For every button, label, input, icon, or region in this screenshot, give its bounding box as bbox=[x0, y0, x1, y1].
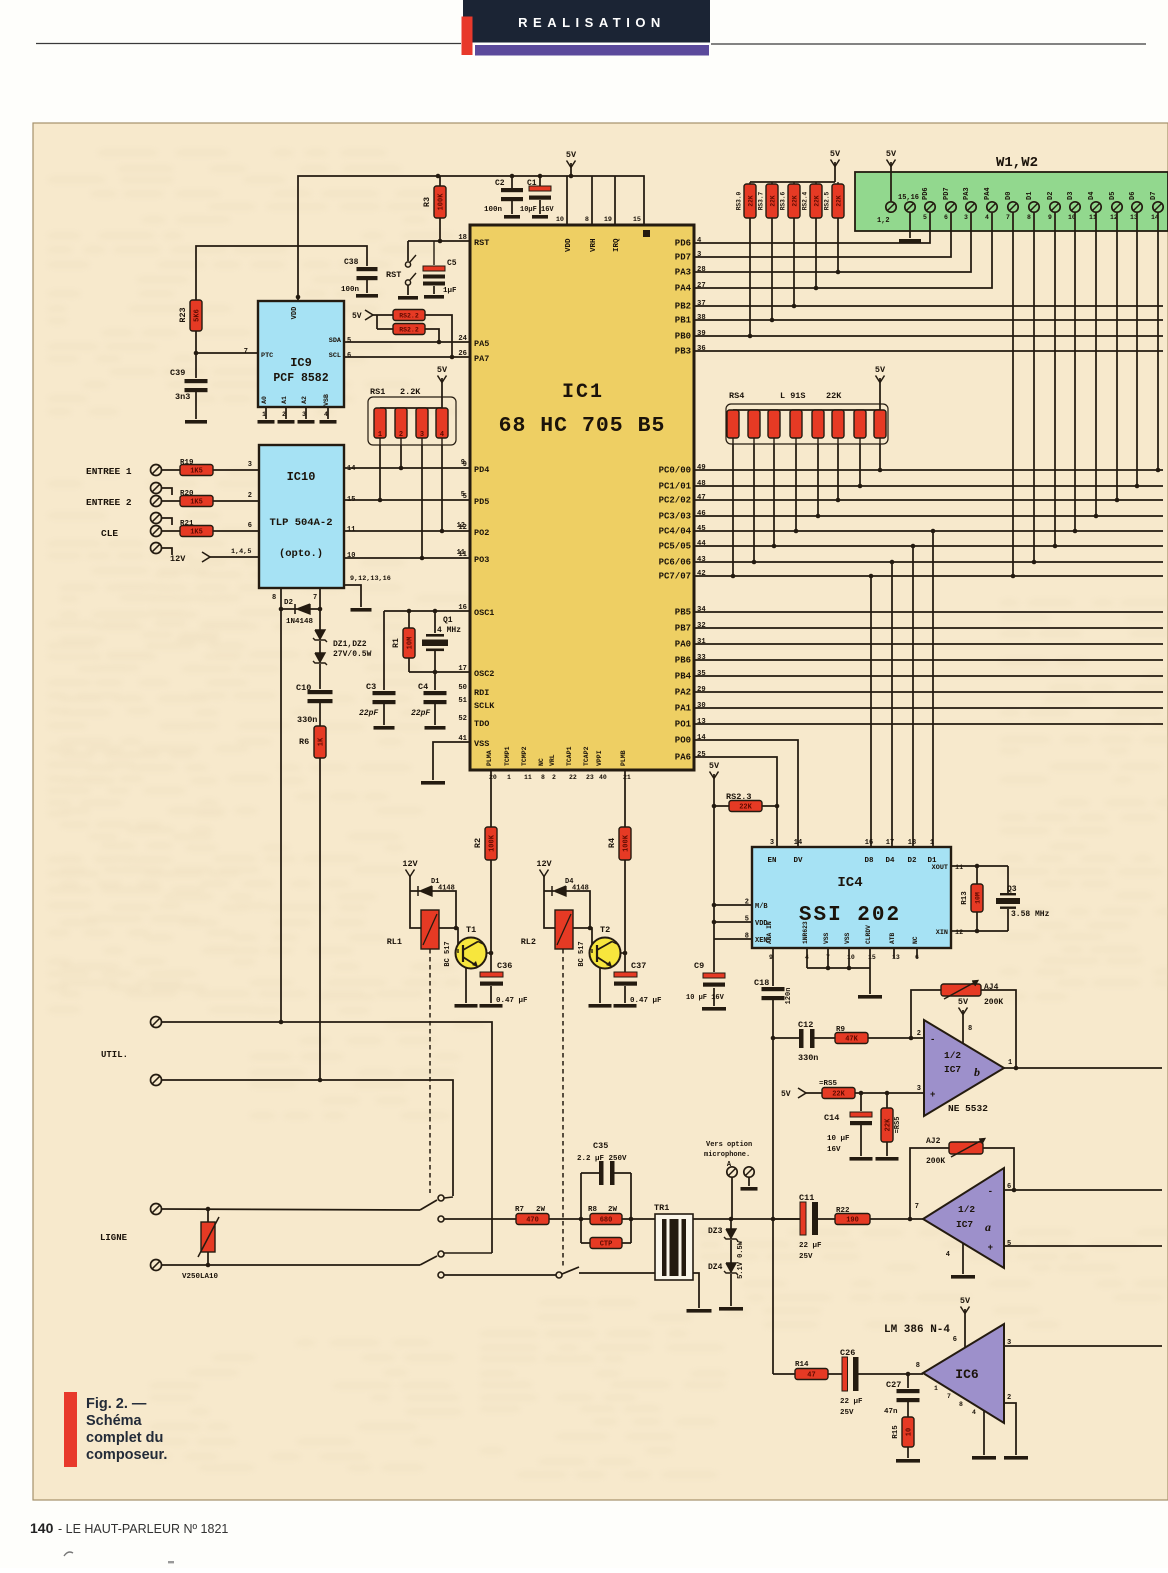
connector ENTREE 1 bbox=[86, 465, 162, 478]
svg-text:18: 18 bbox=[908, 839, 916, 847]
junction R23 C39 node bbox=[194, 351, 199, 356]
wire PB4 bus bbox=[694, 675, 1163, 677]
crystal Q3 3.58MHz bbox=[996, 866, 1050, 931]
svg-text:D2: D2 bbox=[1047, 192, 1055, 200]
svg-text:100K: 100K bbox=[489, 834, 497, 852]
svg-text:Schéma: Schéma bbox=[86, 1413, 143, 1429]
svg-text:1K5: 1K5 bbox=[190, 499, 203, 507]
diode D4 4148 bbox=[544, 878, 590, 928]
svg-text:3: 3 bbox=[420, 431, 424, 439]
svg-text:RS2.2: RS2.2 bbox=[399, 313, 419, 320]
svg-text:5V: 5V bbox=[781, 1090, 791, 1099]
svg-text:1K5: 1K5 bbox=[190, 468, 203, 476]
svg-text:330n: 330n bbox=[297, 715, 317, 725]
page footer bbox=[30, 1520, 228, 1536]
power 5V W1W2 pin1,2 bbox=[886, 149, 897, 201]
op-amp IC6 LM386 bbox=[884, 1324, 1011, 1423]
svg-text:8: 8 bbox=[916, 1362, 920, 1370]
wire LIGNE2 to contact bbox=[162, 1264, 420, 1266]
svg-text:PB2: PB2 bbox=[675, 302, 691, 312]
figure caption red bar bbox=[64, 1392, 77, 1467]
svg-text:5V: 5V bbox=[958, 997, 969, 1007]
svg-text:VDD: VDD bbox=[565, 238, 573, 252]
svg-text:-: - bbox=[930, 1035, 935, 1045]
svg-text:VSS: VSS bbox=[474, 739, 489, 749]
wire PTC pin7 of IC9 bbox=[196, 352, 258, 354]
svg-text:PB1: PB1 bbox=[675, 316, 692, 326]
svg-text:R13: R13 bbox=[961, 891, 969, 905]
junction C27 node bbox=[906, 1372, 911, 1377]
junction DZ3 node bbox=[729, 1217, 734, 1222]
capacitor C4 22pF bbox=[411, 672, 447, 730]
svg-text:1K: 1K bbox=[318, 737, 326, 746]
wire PA1 bus bbox=[694, 707, 1163, 709]
wire PO1 bus bbox=[694, 723, 1163, 725]
junction AJ2 node bbox=[908, 1217, 913, 1222]
svg-text:L 91S: L 91S bbox=[780, 391, 806, 401]
wire PC1 bus bbox=[694, 485, 1163, 487]
wire RS3.0 to PB0 bbox=[749, 218, 751, 336]
page bottom marks bbox=[64, 1552, 73, 1556]
IC1 title text bbox=[499, 381, 666, 438]
svg-text:19: 19 bbox=[604, 216, 612, 224]
svg-text:17: 17 bbox=[886, 839, 894, 847]
svg-text:120n: 120n bbox=[785, 988, 793, 1005]
wire IC4 D4 to PC6 bbox=[891, 562, 893, 847]
svg-text:A2: A2 bbox=[301, 396, 308, 404]
svg-text:R23: R23 bbox=[178, 307, 188, 322]
power 12V for RL1 bbox=[402, 859, 418, 891]
svg-text:6: 6 bbox=[944, 214, 948, 221]
svg-text:3: 3 bbox=[917, 1085, 921, 1093]
junction R6 wire on UTIL2 bbox=[318, 1078, 323, 1083]
resistor RS5 22K vertical bbox=[876, 1093, 903, 1161]
svg-text:1/2: 1/2 bbox=[944, 1050, 961, 1061]
junction D2 nodes bbox=[279, 607, 284, 612]
power 5V RS3 bbox=[830, 149, 841, 182]
svg-text:IC7: IC7 bbox=[956, 1219, 973, 1230]
relay contact K1b bbox=[420, 1251, 492, 1278]
svg-text:5V: 5V bbox=[875, 365, 886, 375]
svg-text:Fig. 2. —: Fig. 2. — bbox=[86, 1396, 147, 1412]
capacitor C11 22uF 25V bbox=[773, 1193, 835, 1261]
svg-text:C1: C1 bbox=[527, 179, 537, 188]
svg-text:V250LA10: V250LA10 bbox=[182, 1273, 219, 1281]
svg-text:C35: C35 bbox=[593, 1141, 608, 1151]
svg-text:5V: 5V bbox=[709, 761, 720, 771]
svg-text:5: 5 bbox=[923, 214, 927, 221]
wire IC4 D1 to PC4 bbox=[932, 531, 934, 847]
thermistor CTP bbox=[581, 1219, 631, 1249]
svg-text:RDI: RDI bbox=[474, 688, 489, 698]
svg-text:a: a bbox=[985, 1220, 991, 1234]
svg-text:22 µF: 22 µF bbox=[799, 1242, 822, 1250]
svg-text:PD6: PD6 bbox=[922, 187, 930, 200]
resistor R14 47 bbox=[795, 1361, 843, 1380]
svg-text:7: 7 bbox=[1006, 214, 1010, 221]
header rule left bbox=[36, 43, 461, 45]
svg-text:IC6: IC6 bbox=[955, 1367, 979, 1382]
svg-text:T2: T2 bbox=[600, 925, 610, 935]
power 5V IC7b pin8 bbox=[958, 997, 972, 1043]
wire T1 emitter to ground bbox=[455, 967, 478, 1008]
svg-text:D4: D4 bbox=[885, 857, 895, 865]
svg-text:12V: 12V bbox=[170, 554, 186, 564]
IC1 bottom pin labels bbox=[486, 746, 631, 781]
svg-text:R2: R2 bbox=[473, 838, 483, 848]
svg-text:C4: C4 bbox=[418, 682, 428, 692]
svg-text:CLRDV: CLRDV bbox=[865, 925, 872, 944]
junction IC9 VDD lead bbox=[296, 295, 301, 300]
wire D2 to PC5 bus bbox=[1054, 212, 1056, 546]
wire contact to R7 bbox=[444, 1218, 516, 1220]
svg-text:+: + bbox=[930, 1090, 935, 1100]
resistor R1 10M bbox=[392, 611, 415, 672]
svg-text:100n: 100n bbox=[484, 206, 503, 214]
svg-text:PA5: PA5 bbox=[474, 339, 489, 349]
resistor network RS1 2.2K bbox=[368, 387, 456, 445]
svg-text:D8: D8 bbox=[864, 857, 874, 865]
svg-text:XIN: XIN bbox=[936, 929, 948, 937]
connector LIGNE bottom bbox=[151, 1260, 162, 1271]
svg-text:22K: 22K bbox=[814, 195, 821, 206]
svg-text:SCL: SCL bbox=[329, 352, 341, 360]
svg-text:PO0: PO0 bbox=[675, 736, 691, 746]
svg-text:VSB: VSB bbox=[323, 394, 330, 406]
svg-text:C37: C37 bbox=[631, 961, 646, 971]
svg-text:11: 11 bbox=[524, 774, 532, 781]
wire IC4 VSS ground bus bbox=[807, 948, 882, 999]
svg-text:5V: 5V bbox=[886, 149, 897, 159]
svg-text:9: 9 bbox=[463, 461, 467, 469]
wire IC7b output bbox=[1004, 1067, 1162, 1069]
svg-text:T1: T1 bbox=[466, 925, 476, 935]
svg-text:PD7: PD7 bbox=[943, 187, 951, 200]
wire D4 to PC3 bus bbox=[1095, 212, 1097, 516]
wire W1W2 ground pin15,16 bbox=[899, 212, 921, 243]
svg-text:PA4: PA4 bbox=[984, 187, 992, 200]
relay coil RL2 bbox=[521, 891, 573, 949]
svg-text:5V: 5V bbox=[566, 150, 577, 160]
junction D1 cathode bbox=[454, 926, 459, 931]
svg-text:9: 9 bbox=[1048, 214, 1052, 221]
svg-text:VDD: VDD bbox=[291, 307, 299, 320]
junction RS5v node bbox=[885, 1091, 890, 1096]
svg-text:200K: 200K bbox=[984, 998, 1003, 1007]
svg-text:7: 7 bbox=[915, 1203, 919, 1211]
relay contact K2 bbox=[556, 1267, 655, 1278]
svg-text:DV: DV bbox=[793, 857, 803, 865]
wire RS4 leg x733 bbox=[732, 444, 734, 576]
power 5V for RS2.2 pullups bbox=[352, 310, 393, 329]
junction feedback node IC7b bbox=[909, 1036, 914, 1041]
svg-text:5K6: 5K6 bbox=[194, 309, 202, 322]
wire RS4 leg x754 bbox=[753, 444, 755, 562]
figure caption text bbox=[86, 1396, 167, 1463]
svg-text:5V: 5V bbox=[437, 365, 448, 375]
svg-text:PD6: PD6 bbox=[675, 239, 691, 249]
svg-text:NC: NC bbox=[538, 758, 545, 766]
svg-text:CLE: CLE bbox=[101, 528, 118, 539]
svg-text:PTC: PTC bbox=[261, 352, 273, 360]
svg-text:4: 4 bbox=[946, 1251, 950, 1259]
junction D4 cathode bbox=[588, 926, 593, 931]
capacitor C3 22pF bbox=[359, 611, 396, 730]
svg-text:R8: R8 bbox=[588, 1206, 598, 1214]
svg-text:R14: R14 bbox=[795, 1361, 809, 1369]
wire RS1-1 to PD5 line bbox=[379, 445, 381, 500]
wire VSS to ground bbox=[421, 742, 470, 785]
resistor R15 10 bbox=[892, 1417, 920, 1463]
svg-text:TCMP2: TCMP2 bbox=[521, 746, 528, 766]
svg-text:RS2.2: RS2.2 bbox=[399, 327, 419, 334]
svg-text:PC0/00: PC0/00 bbox=[659, 466, 691, 476]
wire PC3 bus bbox=[694, 515, 1163, 517]
svg-text:PA3: PA3 bbox=[675, 268, 691, 278]
svg-text:D3: D3 bbox=[1067, 192, 1075, 200]
svg-text:PA0: PA0 bbox=[675, 640, 691, 650]
svg-text:PD7: PD7 bbox=[675, 253, 691, 263]
relay linkage RL2 dashed bbox=[562, 949, 564, 1268]
svg-text:5V: 5V bbox=[352, 312, 362, 321]
svg-text:4 MHz: 4 MHz bbox=[437, 626, 461, 635]
svg-text:DZ4: DZ4 bbox=[708, 1263, 723, 1272]
wire PC6 bus bbox=[694, 561, 1163, 563]
svg-text:6: 6 bbox=[953, 1336, 957, 1344]
svg-text:22K: 22K bbox=[748, 195, 755, 206]
svg-text:15: 15 bbox=[633, 216, 641, 224]
junction audio node at line bbox=[771, 1217, 776, 1222]
svg-text:2W: 2W bbox=[608, 1206, 618, 1214]
svg-text:IC7: IC7 bbox=[944, 1064, 961, 1075]
svg-text:27V/0.5W: 27V/0.5W bbox=[333, 650, 372, 659]
wire IC6 pin2 ground bbox=[1004, 1403, 1028, 1460]
capacitor C37 0.47uF bbox=[614, 961, 663, 1008]
IC1 right pin labels bbox=[659, 237, 707, 763]
svg-text:=RS5: =RS5 bbox=[819, 1080, 838, 1088]
resistor R2 100K bbox=[473, 770, 497, 972]
svg-text:NE 5532: NE 5532 bbox=[948, 1103, 988, 1114]
svg-text:D7: D7 bbox=[1150, 192, 1158, 200]
svg-text:OSC2: OSC2 bbox=[474, 669, 494, 679]
svg-text:C12: C12 bbox=[798, 1020, 813, 1030]
svg-text:10µF 16V: 10µF 16V bbox=[520, 206, 554, 214]
svg-text:LIGNE: LIGNE bbox=[100, 1233, 128, 1243]
svg-text:1: 1 bbox=[930, 839, 934, 847]
wire PA6 to IC4 EN bbox=[694, 757, 777, 847]
power 5V for RS1 bbox=[437, 365, 448, 408]
connector LIGNE top bbox=[151, 1204, 162, 1215]
resistor RS2.2 pullup b bbox=[393, 324, 441, 345]
diode D2 1N4148 bbox=[281, 599, 320, 626]
svg-text:R7: R7 bbox=[515, 1206, 524, 1214]
svg-text:2: 2 bbox=[917, 1030, 921, 1038]
header rule right bbox=[711, 43, 1146, 45]
resistor R21 1K5 bbox=[162, 520, 259, 537]
svg-text:PCF 8582: PCF 8582 bbox=[273, 372, 328, 385]
svg-text:VSS: VSS bbox=[844, 932, 851, 944]
junction AJ2 on minus input bbox=[1012, 1188, 1017, 1193]
junction R3 on RST net bbox=[438, 239, 443, 244]
capacitor C27 47n bbox=[884, 1374, 920, 1417]
resistor R19 1K5 bbox=[162, 459, 259, 476]
zener DZ3 5.1V bbox=[708, 1219, 738, 1241]
svg-text:R4: R4 bbox=[607, 838, 617, 848]
wire D3 to PC4 bus bbox=[1074, 212, 1076, 531]
svg-text:Q3: Q3 bbox=[1007, 885, 1017, 894]
svg-text:22 µF: 22 µF bbox=[840, 1398, 863, 1406]
svg-text:140: 140 bbox=[30, 1520, 54, 1536]
zener DZ1 bbox=[313, 609, 327, 642]
svg-text:RS2.3: RS2.3 bbox=[726, 792, 752, 802]
svg-text:C36: C36 bbox=[497, 961, 512, 971]
wire UTIL1 net bbox=[162, 1022, 492, 1253]
svg-text:C5: C5 bbox=[447, 259, 457, 268]
svg-text:68 HC 705 B5: 68 HC 705 B5 bbox=[499, 414, 666, 438]
svg-text:1K5: 1K5 bbox=[190, 529, 203, 537]
svg-text:R19: R19 bbox=[180, 459, 194, 467]
svg-text:RS1: RS1 bbox=[370, 387, 385, 397]
capacitor C36 0.47uF bbox=[480, 961, 529, 1008]
potentiometer AJ2 200K bbox=[910, 1137, 1014, 1219]
svg-text:6: 6 bbox=[248, 522, 252, 530]
svg-text:IC4: IC4 bbox=[837, 875, 862, 891]
svg-text:0.47 µF: 0.47 µF bbox=[630, 997, 662, 1005]
svg-text:3: 3 bbox=[964, 214, 968, 221]
svg-text:10 µF 16V: 10 µF 16V bbox=[686, 994, 725, 1002]
IC10 TLP504A-2 body bbox=[259, 445, 344, 588]
resistor R3 100K bbox=[422, 176, 446, 241]
connector W1W2 pin circles bbox=[877, 187, 1163, 225]
capacitor C38 100n bbox=[341, 258, 378, 298]
svg-text:ENTREE 2: ENTREE 2 bbox=[86, 497, 132, 508]
svg-text:9,12,13,16: 9,12,13,16 bbox=[350, 575, 391, 583]
connector UTIL bottom bbox=[151, 1075, 162, 1086]
svg-text:7: 7 bbox=[244, 348, 248, 356]
capacitor C12 330n bbox=[773, 1020, 835, 1063]
wire IC4 D2 to PC5 bbox=[912, 546, 914, 847]
svg-text:PB4: PB4 bbox=[675, 672, 692, 682]
svg-text:TDO: TDO bbox=[474, 719, 489, 729]
IC9 labels bbox=[244, 307, 351, 418]
svg-text:22K: 22K bbox=[792, 195, 799, 206]
svg-text:25V: 25V bbox=[840, 1409, 854, 1417]
wire TR1 secondary top bbox=[693, 1218, 800, 1220]
svg-text:PB3: PB3 bbox=[675, 347, 691, 357]
svg-text:8: 8 bbox=[541, 774, 545, 781]
op-amp IC7b NE5532 bbox=[917, 1020, 1012, 1116]
IC1 top pin labels bbox=[556, 216, 650, 252]
junction 5V rail nodes bbox=[436, 174, 441, 179]
svg-text:5V: 5V bbox=[830, 149, 841, 159]
svg-text:VPPI: VPPI bbox=[596, 750, 603, 766]
wire UTIL2 net bbox=[162, 1080, 453, 1196]
IC4 labels bbox=[745, 839, 963, 961]
transistor T1 BC517 bbox=[444, 925, 491, 969]
svg-text:26: 26 bbox=[458, 350, 467, 358]
svg-text:PC7/07: PC7/07 bbox=[659, 572, 691, 582]
svg-text:RL2: RL2 bbox=[521, 937, 536, 947]
capacitor C1 10uF16V bbox=[520, 176, 554, 219]
svg-text:1,4,5: 1,4,5 bbox=[231, 548, 251, 556]
wire RS3.7 to PB1 bbox=[771, 218, 773, 320]
svg-text:PO1: PO1 bbox=[675, 720, 692, 730]
svg-text:1: 1 bbox=[1008, 1059, 1012, 1067]
wire R8 loop to TR1 bbox=[631, 1218, 655, 1220]
svg-text:C14: C14 bbox=[824, 1113, 839, 1123]
connector shield b bbox=[151, 513, 173, 526]
wire IC6 pin4 ground bbox=[972, 1411, 996, 1460]
svg-text:1,2: 1,2 bbox=[877, 217, 890, 225]
input 12V bbox=[170, 548, 259, 564]
connector shield a bbox=[151, 483, 173, 496]
svg-text:22K: 22K bbox=[885, 1118, 893, 1131]
wire SDA to PA5 bbox=[344, 341, 470, 343]
wire audio node to R14 bbox=[773, 1373, 795, 1375]
capacitor C35 2.2uF 250V bbox=[577, 1141, 633, 1221]
svg-text:W1,W2: W1,W2 bbox=[996, 155, 1038, 171]
connector ENTREE 2 bbox=[86, 496, 162, 509]
wire PB7 bus bbox=[694, 627, 1163, 629]
svg-text:14: 14 bbox=[347, 465, 355, 473]
svg-text:47K: 47K bbox=[845, 1036, 858, 1044]
svg-text:PA7: PA7 bbox=[474, 354, 489, 364]
svg-text:IC1: IC1 bbox=[562, 381, 604, 404]
junction output feedback bbox=[1014, 1066, 1019, 1071]
svg-text:11: 11 bbox=[458, 551, 467, 559]
svg-text:5.1V 0.5W: 5.1V 0.5W bbox=[737, 1240, 745, 1279]
svg-text:51: 51 bbox=[458, 697, 467, 705]
resistor R7 470 2W bbox=[515, 1206, 581, 1225]
svg-text:1NR623: 1NR623 bbox=[802, 921, 809, 944]
svg-text:IC9: IC9 bbox=[290, 356, 312, 370]
wire PO3 net bbox=[344, 557, 470, 559]
wire RS1-4 to PO2 line bbox=[441, 445, 443, 531]
svg-text:2: 2 bbox=[552, 774, 556, 781]
wire RS4 leg x818 bbox=[817, 444, 819, 516]
resistor R6 1K bbox=[299, 726, 326, 1080]
wire D0 to PC7 bus bbox=[1012, 212, 1014, 576]
svg-text:PD4: PD4 bbox=[474, 465, 489, 475]
svg-text:RL1: RL1 bbox=[387, 937, 402, 947]
svg-text:PA3: PA3 bbox=[963, 187, 971, 200]
svg-text:R20: R20 bbox=[180, 490, 194, 498]
capacitor C39 3n3 bbox=[170, 353, 208, 424]
svg-text:RS4: RS4 bbox=[729, 391, 744, 401]
wire IC10 pins 9,12,13,16 to ground bbox=[344, 585, 372, 612]
svg-text:AJ2: AJ2 bbox=[926, 1137, 941, 1146]
svg-text:2.2K: 2.2K bbox=[400, 387, 421, 397]
IC1 68HC705B5 microcontroller body bbox=[470, 225, 694, 770]
wire SCL to PA7 bbox=[344, 356, 470, 358]
wire RS4 leg x838 bbox=[837, 444, 839, 500]
svg-text:PC2/02: PC2/02 bbox=[659, 496, 691, 506]
svg-text:12V: 12V bbox=[402, 859, 418, 869]
svg-text:PC1/01: PC1/01 bbox=[659, 482, 692, 492]
power 5V IC4 bbox=[709, 761, 720, 939]
relay contact K1a bbox=[420, 1195, 453, 1222]
junction audio node at C12 bbox=[771, 1036, 776, 1041]
wire PA0 bus bbox=[694, 643, 1163, 645]
resistor RS2.2 pullup a bbox=[393, 310, 454, 360]
svg-text:2.2 µF 250V: 2.2 µF 250V bbox=[577, 1155, 627, 1163]
svg-text:SCLK: SCLK bbox=[474, 701, 495, 711]
svg-text:7: 7 bbox=[313, 594, 317, 602]
svg-text:R6: R6 bbox=[299, 737, 309, 747]
IC10 labels bbox=[269, 465, 390, 602]
wire IC10 pin7 vertical bbox=[319, 588, 321, 609]
svg-text:100n: 100n bbox=[341, 286, 360, 294]
